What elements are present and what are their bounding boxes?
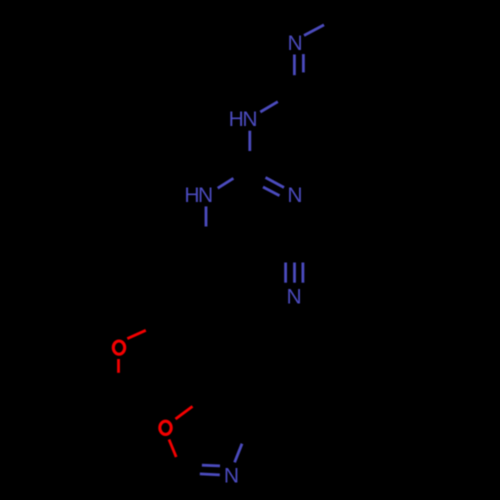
wire: NH2-Cguanidine bond stub <box>218 178 234 188</box>
svg-text:N: N <box>287 184 302 207</box>
wire: NH1-Cguanidine bond stub <box>248 131 251 151</box>
wire: oxazole C2=N3 inner stub <box>202 464 220 467</box>
svg-text:N: N <box>288 32 303 55</box>
wire: pyridine N1=C2 inner stub <box>302 54 305 72</box>
wire: oxazole N3-C4 bond stub <box>235 444 242 463</box>
wire: oxazole O1-C5 bond stub <box>176 406 193 419</box>
oxazole O1 label <box>160 421 171 434</box>
wire: NH1-pyridineC2 bond stub <box>260 102 278 112</box>
wire: nitrile triple bond right stub <box>301 263 304 283</box>
svg-text:N: N <box>242 108 257 131</box>
wire: NH2-CH chain bond stub <box>205 206 208 226</box>
wire: pyridine N1=C2 main stub <box>293 55 296 76</box>
wire: oxazole O1-C2 bond stub <box>169 440 176 458</box>
wire: Cguanidine=N inner stub <box>263 187 280 196</box>
wire: pyridine N1-C6 bond stub <box>304 25 324 36</box>
wire: nitrile triple bond main stub <box>293 263 296 283</box>
svg-text:N: N <box>224 465 239 488</box>
svg-text:N: N <box>287 286 302 309</box>
svg-text:N: N <box>198 184 213 207</box>
methoxy O label <box>113 341 124 354</box>
wire: methoxyO-CH3 bond stub <box>117 359 120 373</box>
wire: methoxyO-arylC bond stub <box>127 330 146 338</box>
wire: Cguanidine=N main stub <box>266 178 285 188</box>
wire: nitrile triple bond left stub <box>284 263 287 283</box>
wire: oxazole C2=N3 main stub <box>200 474 220 475</box>
